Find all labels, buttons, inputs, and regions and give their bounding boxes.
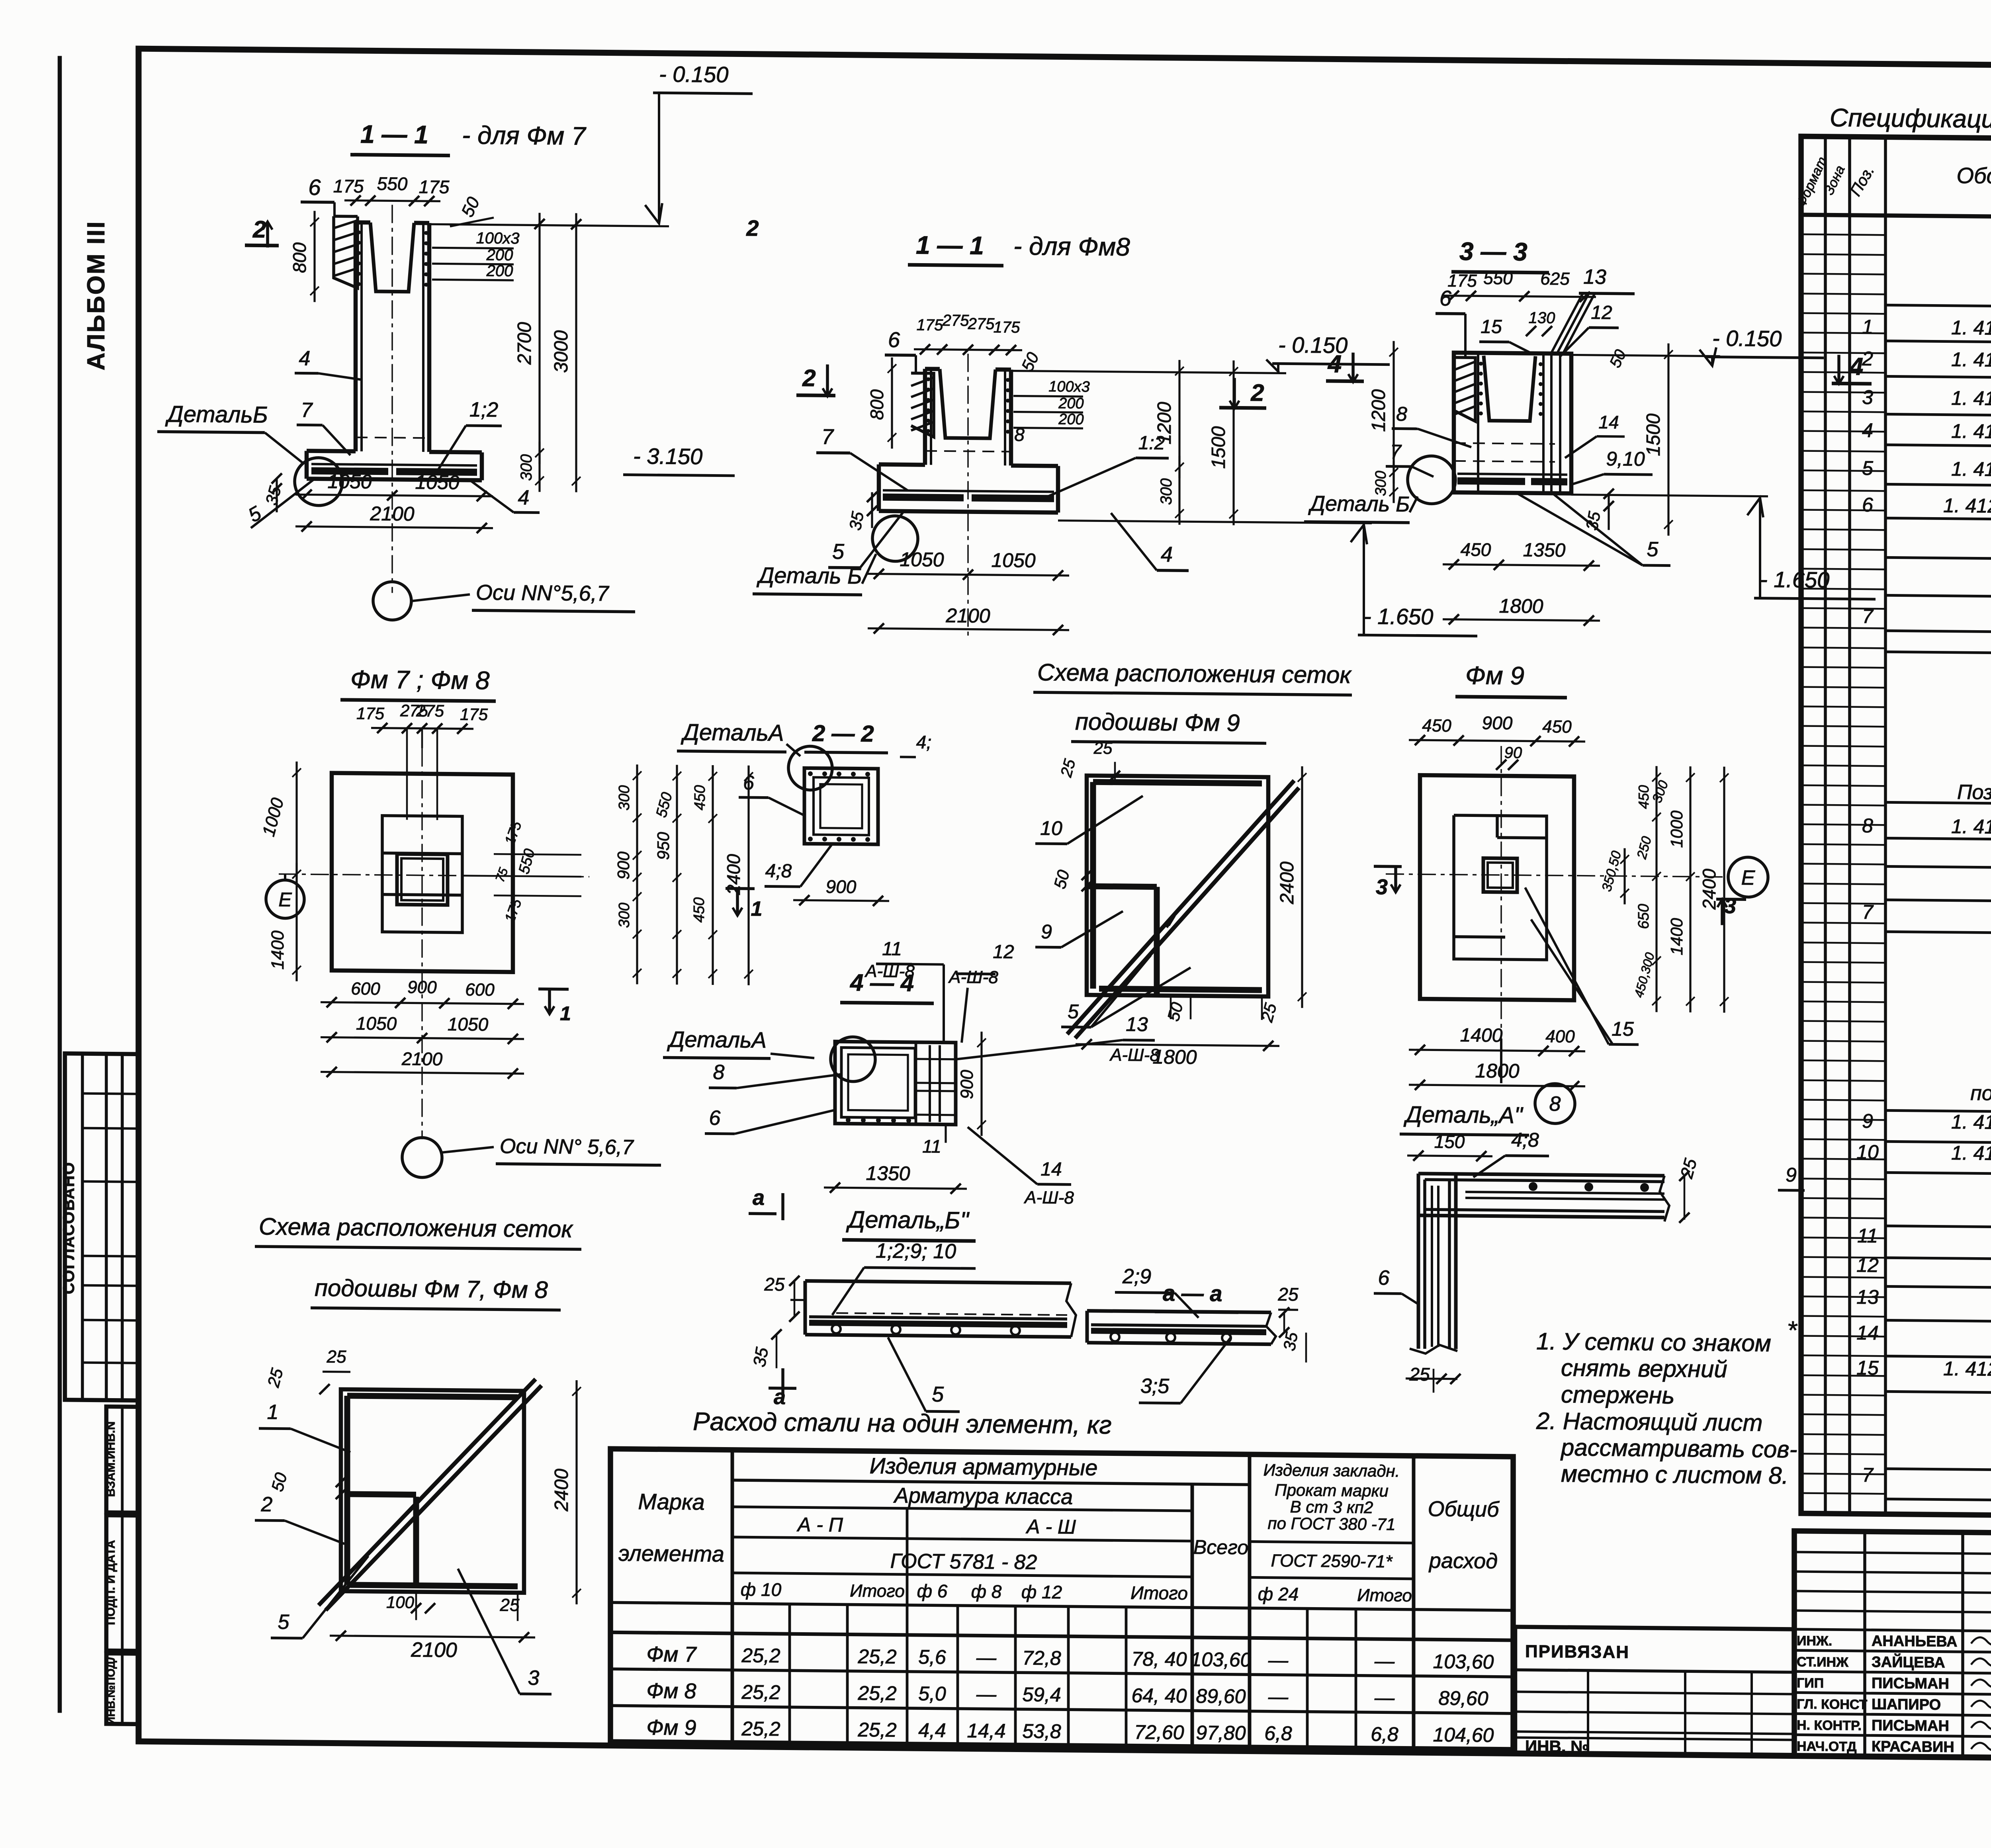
svg-text:35: 35 xyxy=(846,510,868,532)
svg-text:90: 90 xyxy=(1504,744,1522,762)
svg-text:11: 11 xyxy=(922,1136,941,1156)
svg-text:104,60: 104,60 xyxy=(1433,1723,1494,1746)
svg-text:150: 150 xyxy=(1434,1131,1465,1152)
svg-text:450: 450 xyxy=(1542,717,1572,737)
svg-text:5: 5 xyxy=(1647,538,1659,561)
svg-text:1. 410-3: 1. 410-3 xyxy=(1951,458,1991,481)
svg-text:78, 40: 78, 40 xyxy=(1131,1648,1187,1670)
svg-text:1400: 1400 xyxy=(1460,1025,1503,1046)
svg-text:*: * xyxy=(1787,1316,1798,1344)
svg-text:7: 7 xyxy=(1862,605,1874,627)
svg-text:10: 10 xyxy=(1856,1141,1879,1163)
svg-text:64, 40: 64, 40 xyxy=(1131,1684,1187,1707)
svg-text:Расход стали на один элемен: Расход стали на один элемент, кг xyxy=(693,1407,1112,1439)
svg-text:3;5: 3;5 xyxy=(1140,1375,1170,1398)
svg-text:4: 4 xyxy=(1161,543,1173,567)
svg-text:300: 300 xyxy=(1158,478,1175,505)
svg-text:НАЧ.ОТД: НАЧ.ОТД xyxy=(1797,1739,1856,1754)
svg-text:2100: 2100 xyxy=(370,502,414,525)
svg-text:Оси NN° 5,6,7: Оси NN° 5,6,7 xyxy=(500,1135,634,1159)
svg-text:Поз. 1, 2, 3,5,6: Поз. 1, 2, 3,5,6 xyxy=(1957,781,1991,805)
svg-text:2: 2 xyxy=(746,215,759,240)
svg-text:103,60: 103,60 xyxy=(1433,1650,1494,1673)
svg-text:1050: 1050 xyxy=(356,1013,397,1034)
svg-text:А - Ш: А - Ш xyxy=(1025,1515,1076,1538)
svg-text:ИНВ. №: ИНВ. № xyxy=(1525,1737,1589,1756)
svg-text:Изделия арматурные: Изделия арматурные xyxy=(870,1453,1098,1480)
svg-text:ф 6: ф 6 xyxy=(917,1580,948,1602)
svg-text:—: — xyxy=(1374,1686,1395,1709)
svg-text:25: 25 xyxy=(327,1347,346,1367)
svg-text:2: 2 xyxy=(802,365,816,391)
svg-text:300: 300 xyxy=(616,903,633,928)
svg-text:14,4: 14,4 xyxy=(967,1719,1005,1742)
svg-text:1350: 1350 xyxy=(866,1162,910,1185)
svg-text:—: — xyxy=(976,1683,997,1705)
svg-text:300: 300 xyxy=(616,785,633,811)
svg-text:97,80: 97,80 xyxy=(1196,1721,1246,1744)
svg-text:4: 4 xyxy=(518,486,530,509)
svg-text:5: 5 xyxy=(832,540,845,564)
svg-text:2100: 2100 xyxy=(945,604,990,627)
svg-text:рассматривать сов-: рассматривать сов- xyxy=(1560,1434,1797,1463)
svg-text:—: — xyxy=(1374,1650,1395,1672)
svg-text:175: 175 xyxy=(333,176,364,197)
svg-text:200: 200 xyxy=(486,246,513,264)
svg-text:3000: 3000 xyxy=(551,330,572,373)
svg-text:175: 175 xyxy=(419,176,450,197)
svg-text:7: 7 xyxy=(1862,901,1874,923)
svg-text:1350: 1350 xyxy=(1523,539,1566,561)
svg-text:2: 2 xyxy=(1250,379,1264,406)
svg-text:59,4: 59,4 xyxy=(1022,1683,1061,1706)
svg-text:175: 175 xyxy=(917,316,943,334)
svg-text:450: 450 xyxy=(1635,785,1652,809)
svg-text:550: 550 xyxy=(377,173,408,194)
svg-text:1400: 1400 xyxy=(1667,918,1686,955)
svg-text:9,10: 9,10 xyxy=(1606,447,1645,470)
svg-text:- для Фм 7: - для Фм 7 xyxy=(462,121,587,150)
svg-text:2. Настоящий лист: 2. Настоящий лист xyxy=(1536,1407,1762,1436)
svg-text:12: 12 xyxy=(1856,1254,1879,1276)
svg-text:ПОДП. И ДАТА: ПОДП. И ДАТА xyxy=(104,1540,117,1625)
svg-text:1: 1 xyxy=(1862,316,1873,338)
svg-text:5: 5 xyxy=(1068,1000,1079,1023)
svg-text:13: 13 xyxy=(1856,1286,1879,1308)
svg-text:15: 15 xyxy=(1856,1357,1879,1379)
svg-text:1500: 1500 xyxy=(1208,426,1229,469)
svg-text:35: 35 xyxy=(749,1346,772,1369)
svg-text:25: 25 xyxy=(1093,738,1113,757)
svg-text:1. 412.1 - 4. 060: 1. 412.1 - 4. 060 xyxy=(1943,1358,1991,1381)
svg-text:7: 7 xyxy=(1390,440,1402,463)
svg-text:1 — 1: 1 — 1 xyxy=(360,120,428,149)
svg-text:1400: 1400 xyxy=(268,930,288,970)
svg-text:4;8: 4;8 xyxy=(1511,1129,1539,1151)
svg-text:2: 2 xyxy=(261,1493,273,1516)
svg-text:1. У сетки со знаком: 1. У сетки со знаком xyxy=(1536,1328,1771,1356)
svg-text:Фм 9: Фм 9 xyxy=(1465,661,1524,690)
svg-text:Деталь„Б": Деталь„Б" xyxy=(846,1206,970,1234)
svg-text:950: 950 xyxy=(654,832,673,860)
svg-text:72,8: 72,8 xyxy=(1022,1647,1061,1669)
svg-text:4: 4 xyxy=(1327,350,1342,378)
svg-text:снять верхний: снять верхний xyxy=(1561,1354,1727,1383)
svg-text:450: 450 xyxy=(1461,539,1491,560)
svg-text:25,2: 25,2 xyxy=(857,1645,897,1668)
svg-text:ПРИВЯЗАН: ПРИВЯЗАН xyxy=(1525,1642,1629,1662)
svg-text:14: 14 xyxy=(1598,412,1619,432)
svg-text:25,2: 25,2 xyxy=(857,1719,897,1741)
svg-text:8: 8 xyxy=(1014,424,1025,445)
svg-text:10: 10 xyxy=(1040,817,1062,839)
svg-text:А-Ш-8: А-Ш-8 xyxy=(1109,1045,1160,1065)
svg-text:1500: 1500 xyxy=(1643,413,1664,456)
svg-text:25: 25 xyxy=(500,1595,520,1615)
svg-text:1050: 1050 xyxy=(415,471,459,494)
svg-text:Итого: Итого xyxy=(1357,1586,1412,1606)
svg-text:25: 25 xyxy=(1409,1364,1430,1385)
svg-text:450: 450 xyxy=(691,897,708,923)
svg-text:- 1.650: - 1.650 xyxy=(1364,604,1433,629)
svg-text:200: 200 xyxy=(486,262,513,280)
svg-text:ГИП: ГИП xyxy=(1797,1676,1824,1691)
svg-text:ф 24: ф 24 xyxy=(1258,1583,1299,1604)
svg-text:1050: 1050 xyxy=(900,548,944,571)
svg-text:550: 550 xyxy=(1483,269,1513,289)
svg-text:4;: 4; xyxy=(916,732,931,752)
svg-text:1. 412-1/77: 1. 412-1/77 xyxy=(1943,494,1991,518)
svg-text:подошвы Фм 7, Фм 8: подошвы Фм 7, Фм 8 xyxy=(315,1274,548,1303)
svg-text:6: 6 xyxy=(1439,287,1452,311)
svg-text:Всего: Всего xyxy=(1193,1536,1248,1559)
svg-text:1;2: 1;2 xyxy=(469,398,498,422)
svg-text:поз. 5, 6 и 8: поз. 5, 6 и 8 xyxy=(1970,1082,1991,1106)
svg-text:9: 9 xyxy=(1786,1164,1797,1186)
svg-text:Е: Е xyxy=(278,889,292,911)
svg-text:подошвы Фм 9: подошвы Фм 9 xyxy=(1075,708,1240,736)
svg-text:1;2;9; 10: 1;2;9; 10 xyxy=(876,1239,956,1263)
svg-text:625: 625 xyxy=(1540,269,1570,289)
svg-text:- 0.150: - 0.150 xyxy=(1712,326,1782,352)
svg-text:450: 450 xyxy=(1422,716,1451,736)
svg-text:Схема расположения сеток: Схема расположения сеток xyxy=(259,1213,573,1242)
svg-text:Деталь Б: Деталь Б xyxy=(756,563,862,588)
svg-text:ДетальА: ДетальА xyxy=(667,1027,767,1053)
svg-text:11: 11 xyxy=(882,938,902,959)
svg-text:Итого: Итого xyxy=(850,1581,905,1601)
svg-text:100х3: 100х3 xyxy=(476,229,520,247)
svg-text:а: а xyxy=(753,1186,765,1209)
svg-text:КРАСАВИН: КРАСАВИН xyxy=(1872,1738,1954,1756)
svg-text:14: 14 xyxy=(1040,1159,1062,1180)
svg-text:450: 450 xyxy=(692,785,708,811)
svg-text:2400: 2400 xyxy=(551,1469,572,1512)
svg-text:Фм 8: Фм 8 xyxy=(647,1679,696,1703)
svg-text:1800: 1800 xyxy=(1152,1046,1197,1069)
svg-text:6: 6 xyxy=(308,175,321,200)
svg-text:8: 8 xyxy=(1862,815,1873,837)
svg-text:Марка: Марка xyxy=(638,1489,704,1514)
svg-text:5: 5 xyxy=(278,1610,290,1633)
svg-text:3: 3 xyxy=(1376,875,1388,899)
svg-text:АНАНЬЕВА: АНАНЬЕВА xyxy=(1872,1633,1957,1650)
svg-text:ф 8: ф 8 xyxy=(971,1581,1002,1602)
svg-text:130: 130 xyxy=(1529,309,1555,327)
svg-text:Схема расположения сеток: Схема расположения сеток xyxy=(1037,659,1352,688)
svg-text:по ГОСТ 380 -71: по ГОСТ 380 -71 xyxy=(1268,1514,1396,1534)
svg-text:ДетальА: ДетальА xyxy=(681,719,784,746)
svg-text:3 — 3: 3 — 3 xyxy=(1459,237,1527,266)
svg-text:- для Фм8: - для Фм8 xyxy=(1013,232,1130,262)
svg-text:Обозначение: Обозначение xyxy=(1956,163,1991,189)
svg-text:ИНВ.№ПОДЛ: ИНВ.№ПОДЛ xyxy=(105,1653,117,1725)
svg-text:15: 15 xyxy=(1481,316,1502,337)
svg-text:1. 410-3: 1. 410-3 xyxy=(1951,316,1991,340)
svg-text:2700: 2700 xyxy=(514,322,535,365)
svg-text:13: 13 xyxy=(1583,266,1606,289)
svg-text:6: 6 xyxy=(1378,1266,1390,1289)
svg-text:200: 200 xyxy=(1058,395,1084,412)
svg-text:4: 4 xyxy=(1862,419,1873,441)
svg-text:7: 7 xyxy=(821,425,834,449)
svg-text:- 3.150: - 3.150 xyxy=(633,443,702,469)
svg-text:1: 1 xyxy=(751,897,763,920)
svg-text:6: 6 xyxy=(709,1106,721,1129)
svg-text:100: 100 xyxy=(386,1593,415,1612)
svg-text:2 — 2: 2 — 2 xyxy=(812,720,874,746)
svg-text:расход: расход xyxy=(1428,1549,1498,1573)
svg-text:А - П: А - П xyxy=(796,1513,843,1536)
svg-text:25,2: 25,2 xyxy=(741,1681,780,1703)
svg-text:1050: 1050 xyxy=(991,549,1035,572)
svg-text:200: 200 xyxy=(1058,411,1084,428)
svg-text:1. 410-3: 1. 410-3 xyxy=(1951,1111,1991,1134)
svg-text:1. 410-3: 1. 410-3 xyxy=(1951,387,1991,410)
svg-text:275: 275 xyxy=(416,701,444,721)
svg-text:ГЛ. КОНСТ: ГЛ. КОНСТ xyxy=(1797,1697,1868,1713)
svg-text:4,4: 4,4 xyxy=(918,1719,946,1742)
svg-text:14: 14 xyxy=(1856,1322,1879,1344)
svg-text:25,2: 25,2 xyxy=(741,1717,780,1740)
svg-text:600: 600 xyxy=(465,980,495,1000)
svg-text:Арматура класса: Арматура класса xyxy=(893,1483,1073,1509)
svg-text:ф 10: ф 10 xyxy=(741,1579,782,1600)
svg-text:89,60: 89,60 xyxy=(1438,1687,1488,1709)
svg-text:Деталь Б: Деталь Б xyxy=(1308,492,1410,516)
svg-text:Итого: Итого xyxy=(1130,1582,1188,1604)
svg-text:—: — xyxy=(1268,1649,1289,1671)
svg-text:1050: 1050 xyxy=(448,1014,489,1035)
svg-text:800: 800 xyxy=(289,242,310,273)
svg-text:6,8: 6,8 xyxy=(1371,1723,1398,1746)
svg-text:ГОСТ 5781 - 82: ГОСТ 5781 - 82 xyxy=(890,1549,1037,1574)
svg-text:1: 1 xyxy=(267,1401,279,1424)
svg-text:2;9: 2;9 xyxy=(1122,1265,1151,1288)
svg-text:2: 2 xyxy=(1862,348,1873,370)
svg-text:Изделия закладн.: Изделия закладн. xyxy=(1263,1461,1400,1481)
svg-text:местно с листом 8.: местно с листом 8. xyxy=(1561,1460,1788,1489)
svg-text:1050: 1050 xyxy=(327,470,372,493)
svg-text:СОГЛАСОВАНО: СОГЛАСОВАНО xyxy=(60,1161,78,1294)
svg-text:89,60: 89,60 xyxy=(1196,1685,1246,1707)
svg-text:элемента: элемента xyxy=(618,1540,724,1566)
svg-text:5: 5 xyxy=(1862,457,1873,479)
svg-text:9: 9 xyxy=(1862,1110,1873,1132)
svg-text:А-Ш-8: А-Ш-8 xyxy=(1023,1188,1074,1207)
svg-text:900: 900 xyxy=(826,876,857,897)
svg-text:1. 410-3: 1. 410-3 xyxy=(1951,1142,1991,1165)
svg-text:Оси NN°5,6,7: Оси NN°5,6,7 xyxy=(476,580,610,606)
svg-text:6: 6 xyxy=(888,328,900,352)
svg-text:35: 35 xyxy=(1280,1330,1302,1352)
svg-text:А-Ш-8: А-Ш-8 xyxy=(948,967,998,987)
svg-text:12: 12 xyxy=(1591,302,1612,323)
svg-text:53,8: 53,8 xyxy=(1022,1720,1061,1743)
svg-text:175: 175 xyxy=(994,318,1020,336)
svg-text:2400: 2400 xyxy=(1277,861,1298,905)
svg-text:ГОСТ 2590-71*: ГОСТ 2590-71* xyxy=(1271,1551,1393,1572)
svg-text:1: 1 xyxy=(560,1002,571,1025)
svg-text:100х3: 100х3 xyxy=(1048,378,1090,395)
svg-text:ЗАЙЦЕВА: ЗАЙЦЕВА xyxy=(1872,1653,1945,1671)
svg-text:- 0.150: - 0.150 xyxy=(659,61,728,87)
svg-text:900: 900 xyxy=(407,977,437,997)
svg-text:ДетальБ: ДетальБ xyxy=(165,401,268,428)
svg-text:275: 275 xyxy=(968,315,995,333)
svg-text:Н. КОНТР.: Н. КОНТР. xyxy=(1797,1718,1862,1733)
svg-text:1. 410-3: 1. 410-3 xyxy=(1951,420,1991,443)
svg-text:175: 175 xyxy=(356,704,385,723)
svg-text:5,0: 5,0 xyxy=(918,1682,946,1705)
svg-text:275: 275 xyxy=(942,312,969,330)
svg-text:ф 12: ф 12 xyxy=(1021,1581,1062,1602)
svg-text:1. 410-3: 1. 410-3 xyxy=(1951,348,1991,371)
svg-text:7: 7 xyxy=(1862,1464,1874,1486)
svg-text:—: — xyxy=(1268,1686,1289,1708)
svg-text:ИНЖ.: ИНЖ. xyxy=(1797,1633,1832,1649)
svg-text:72,60: 72,60 xyxy=(1134,1721,1184,1744)
svg-text:25: 25 xyxy=(764,1274,785,1295)
svg-text:ШАПИРО: ШАПИРО xyxy=(1872,1696,1941,1713)
svg-text:5,6: 5,6 xyxy=(918,1646,946,1668)
svg-text:1. 410-3: 1. 410-3 xyxy=(1951,815,1991,838)
svg-text:6: 6 xyxy=(743,772,754,794)
svg-text:25,2: 25,2 xyxy=(741,1644,780,1667)
svg-text:15: 15 xyxy=(1612,1018,1634,1040)
svg-text:900: 900 xyxy=(1482,712,1513,733)
svg-text:ПИСЬМАН: ПИСЬМАН xyxy=(1872,1675,1949,1692)
svg-text:11: 11 xyxy=(1857,1225,1878,1247)
svg-text:103,60: 103,60 xyxy=(1191,1648,1252,1671)
svg-text:3: 3 xyxy=(528,1666,540,1690)
svg-text:4;8: 4;8 xyxy=(765,860,792,882)
svg-text:900: 900 xyxy=(957,1070,977,1099)
svg-text:6,8: 6,8 xyxy=(1264,1722,1292,1745)
svg-text:СТ.ИНЖ: СТ.ИНЖ xyxy=(1797,1655,1848,1670)
svg-text:400: 400 xyxy=(1545,1027,1575,1047)
svg-text:600: 600 xyxy=(351,979,380,999)
svg-text:2100: 2100 xyxy=(411,1638,457,1662)
svg-text:1:2: 1:2 xyxy=(1138,432,1165,454)
svg-text:2100: 2100 xyxy=(401,1048,443,1069)
svg-text:2400: 2400 xyxy=(1699,869,1719,910)
svg-text:Деталь„А": Деталь„А" xyxy=(1403,1102,1524,1129)
svg-text:АЛЬБОМ III: АЛЬБОМ III xyxy=(82,220,110,371)
svg-text:3: 3 xyxy=(1862,386,1873,408)
svg-text:650: 650 xyxy=(1635,904,1652,929)
svg-text:175: 175 xyxy=(1447,271,1477,291)
svg-text:25: 25 xyxy=(1277,1284,1299,1305)
svg-text:25,2: 25,2 xyxy=(857,1682,897,1705)
svg-text:1 — 1: 1 — 1 xyxy=(916,231,984,260)
svg-text:300: 300 xyxy=(518,454,535,481)
svg-text:1800: 1800 xyxy=(1475,1059,1519,1082)
svg-text:7: 7 xyxy=(301,399,313,422)
svg-text:стержень: стержень xyxy=(1561,1381,1674,1408)
svg-text:1800: 1800 xyxy=(1499,595,1543,617)
svg-text:175: 175 xyxy=(460,705,488,724)
svg-text:9: 9 xyxy=(1041,920,1052,943)
svg-text:ПИСЬМАН: ПИСЬМАН xyxy=(1872,1717,1949,1735)
svg-text:Фм 7 ; Фм 8: Фм 7 ; Фм 8 xyxy=(350,665,490,695)
svg-text:А-Ш-8: А-Ш-8 xyxy=(864,961,915,981)
svg-text:800: 800 xyxy=(866,389,887,420)
svg-text:Е: Е xyxy=(1741,866,1756,889)
svg-text:8: 8 xyxy=(1549,1092,1561,1115)
svg-text:900: 900 xyxy=(614,851,633,879)
svg-text:1000: 1000 xyxy=(1667,810,1686,848)
svg-text:12: 12 xyxy=(993,942,1014,963)
svg-text:Фм 7: Фм 7 xyxy=(647,1642,697,1666)
svg-text:Фм 9: Фм 9 xyxy=(647,1715,696,1740)
svg-text:8: 8 xyxy=(713,1061,725,1084)
svg-text:5: 5 xyxy=(932,1382,944,1406)
svg-text:1200: 1200 xyxy=(1368,389,1389,432)
svg-text:8: 8 xyxy=(1396,403,1407,425)
svg-text:—: — xyxy=(976,1646,997,1668)
svg-text:6: 6 xyxy=(1862,494,1873,516)
svg-text:ВЗАМ.ИНВ.N: ВЗАМ.ИНВ.N xyxy=(104,1421,117,1497)
svg-text:4: 4 xyxy=(299,347,311,370)
svg-text:Общиб: Общиб xyxy=(1428,1497,1500,1522)
svg-text:13: 13 xyxy=(1126,1013,1148,1035)
